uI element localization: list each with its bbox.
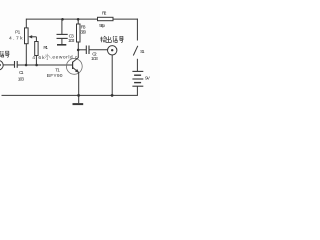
resistor R2 body (horizontal) <box>98 17 114 20</box>
glyph 输 <box>100 36 106 42</box>
output label 输出信号 (drawn glyphs) <box>100 36 124 42</box>
svg-text:BFY90: BFY90 <box>47 73 63 79</box>
resistor R1 body <box>35 42 38 56</box>
transistor T1 collector <box>73 50 79 63</box>
junction P1 bottom on base line <box>25 64 28 67</box>
svg-text:S1: S1 <box>140 49 145 55</box>
wire C1 to base <box>18 64 73 66</box>
output connector <box>108 46 117 55</box>
junction R1 bottom on base line <box>35 64 38 67</box>
svg-text:103: 103 <box>91 56 98 62</box>
svg-text:9V: 9V <box>145 75 151 81</box>
wire P1 bottom stem <box>25 44 27 65</box>
capacitor C1 plates <box>15 61 18 68</box>
svg-text:4.7k: 4.7k <box>9 36 23 42</box>
glyph 号 <box>119 36 124 42</box>
potentiometer P1 wiper arrow <box>28 35 36 41</box>
transistor T1 circle <box>66 59 82 75</box>
svg-text:.eeworld.c: .eeworld.c <box>51 55 79 61</box>
potentiometer P1 body <box>25 28 29 44</box>
glyph 信 <box>113 36 117 42</box>
svg-text:T1: T1 <box>55 68 60 74</box>
resistor R3 body <box>77 24 81 42</box>
wire connector ground drop <box>111 55 113 95</box>
wire R2 right to corner <box>113 18 138 20</box>
wire P1 top stem <box>25 19 27 28</box>
wire C3 bottom stem <box>61 39 63 45</box>
wire bottom rail <box>2 94 138 96</box>
battery B1 plates <box>132 71 143 86</box>
wire battery bottom stem <box>136 87 138 96</box>
watermark water glyph <box>45 54 50 60</box>
glyph 信 (clipped) <box>0 51 4 57</box>
wire right drop to switch <box>136 19 138 41</box>
capacitor C2 plates <box>86 46 89 55</box>
wire R1 bottom stem <box>35 56 37 66</box>
wire R3 top stem <box>77 19 79 24</box>
svg-text:103: 103 <box>18 76 25 82</box>
svg-text:4.6k: 4.6k <box>32 55 45 61</box>
junction R3 top on V+ rail <box>77 18 80 21</box>
transistor T1 emitter with arrow <box>73 67 80 95</box>
input connector (clipped at left edge) <box>0 60 3 69</box>
wire input to C1 <box>3 64 14 66</box>
wire C2 to output connector <box>89 49 108 51</box>
glyph 号 <box>5 51 10 57</box>
svg-text:R2: R2 <box>102 11 107 17</box>
svg-text:P1: P1 <box>15 30 21 36</box>
glyph 出 <box>106 36 111 42</box>
transistor T1 base bar <box>72 62 74 69</box>
junction emitter on ground rail <box>77 94 80 97</box>
wire collector node to C2 <box>78 49 86 51</box>
switch S1 blade <box>133 46 138 56</box>
wire R3 bottom stem to collector node <box>77 42 79 50</box>
capacitor C3 ground bar <box>57 44 66 46</box>
svg-text:C1: C1 <box>19 70 24 76</box>
wire top rail <box>26 18 97 20</box>
wire switch lower to battery <box>136 59 138 72</box>
svg-text:R1: R1 <box>43 45 48 51</box>
junction collector node <box>77 49 80 52</box>
wire C3 top stem <box>61 19 63 34</box>
junction C3 top on V+ rail <box>61 18 64 21</box>
svg-text:103: 103 <box>68 38 75 44</box>
ground symbol <box>73 95 84 104</box>
svg-text:56p: 56p <box>99 23 105 29</box>
junction connector shield on ground rail <box>111 94 114 97</box>
svg-text:330: 330 <box>80 30 86 36</box>
capacitor C3 plates <box>57 34 68 38</box>
input label 信号 (drawn glyphs) <box>0 51 10 57</box>
